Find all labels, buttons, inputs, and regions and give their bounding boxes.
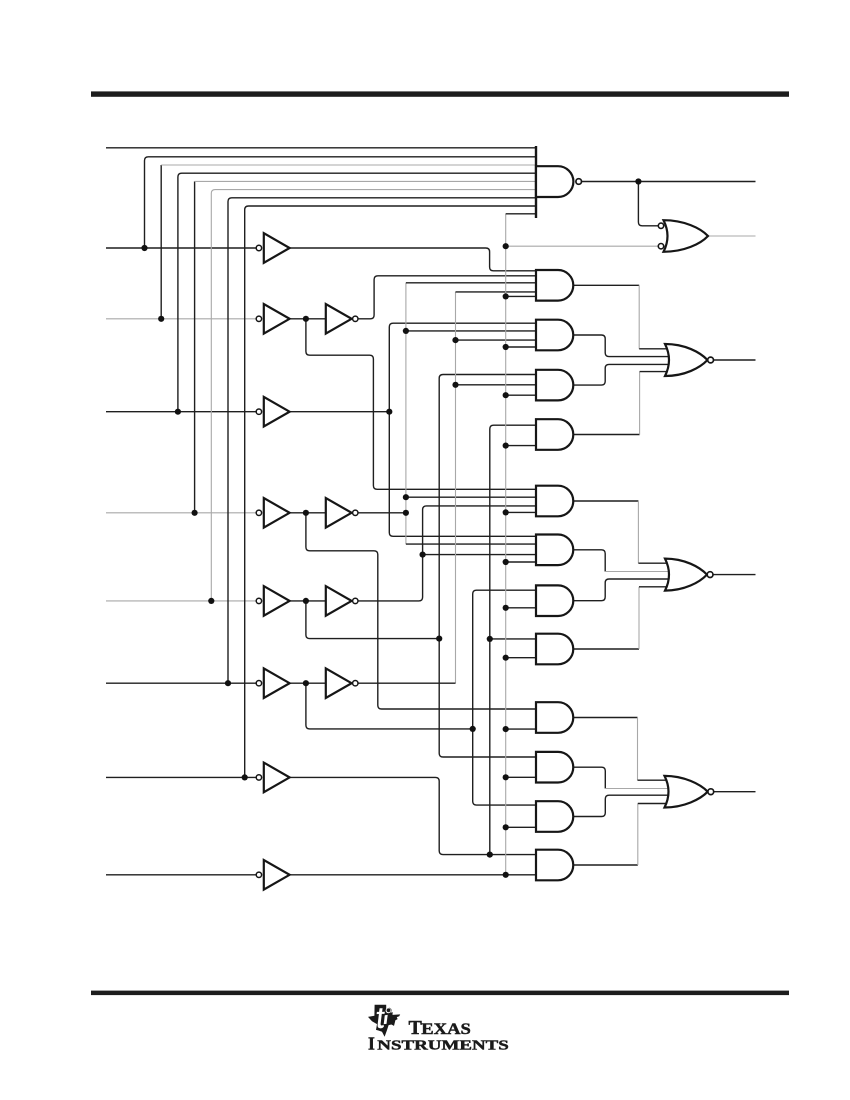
wire GS output [708,235,756,237]
junction buffer4 output [303,510,309,516]
AND gate G3 [536,370,573,401]
wire net EI' to G11 [506,826,536,828]
wire net EI' source to AND G12 [290,874,536,876]
junction net 6' G2 [452,337,458,343]
junction EI' G5 [503,509,509,515]
wire buffer4 to inverter4 [290,512,326,514]
Texas Instruments logo symbol [368,1005,400,1037]
junction buffer2 output [303,316,309,322]
junction net 7 G12 [487,852,493,858]
wire G2 output to NOR A2 [573,335,670,357]
wire net EI' vertical [505,214,507,875]
junction net 3 row4 [386,409,392,415]
top rule [91,91,789,96]
inverter U4b input 4 [326,498,358,528]
wire input 7 row [106,206,536,777]
NOR gate A0 [665,776,714,808]
wire net EI' to G10 [506,776,536,778]
logo wordmark TEXAS [409,1017,471,1039]
wire net 5' to AND G6 [423,554,536,556]
wire net 7 to G8 [490,638,536,640]
wire A1 output [713,574,755,576]
junction EI' source [503,872,509,878]
buffer U8 input EI [256,860,289,890]
AND gate G4 [536,419,573,450]
wire net EI' to G1 [506,295,536,297]
junction buffer6 output [303,680,309,686]
wire input 4 row [106,512,257,514]
junction row7 tap [242,774,248,780]
wire G3 output to NOR A2 [573,364,670,385]
wire net 4 to AND G9 [306,513,536,709]
wire net 4' to G5 [406,496,536,498]
wire input 5 row [106,600,257,602]
AND gate G10 [536,752,573,783]
negative-OR gate GS [658,220,708,252]
AND gate G11 [536,801,573,832]
wire net EI' to G8 [506,657,536,659]
svg-text:EXAS: EXAS [421,1021,471,1038]
wire net 6' to G1 [456,291,537,293]
NOR gate A1 [665,559,713,591]
junction EI' G4 [503,443,509,449]
wire net 2' to AND G1 [358,276,536,319]
wire input 2 row [106,318,257,320]
bottom rule [91,991,789,996]
junction row1 tap [141,245,147,251]
junction row6 tap [225,680,231,686]
junction row2 tap [158,316,164,322]
wire net 4' to G1 [406,282,536,284]
wire net 7 source to AND G12 [290,777,536,854]
AND gate G7 [536,585,573,616]
AND gate G12 [536,850,573,881]
buffer U3 input 3 [256,397,289,427]
AND gate G1 [536,270,573,301]
wire buffer5 to inverter5 [290,600,326,602]
wire net 6' to G3 [456,384,537,386]
wire net 4' to G2 [406,330,536,332]
wire net EI' to G6 [506,561,536,563]
svg-text:NSTRUMENTS: NSTRUMENTS [377,1039,509,1054]
junction EI' G7 [503,605,509,611]
wire net 6' source [358,682,456,684]
wire input 5 row riser [211,190,536,601]
AND gate G2 [536,320,573,351]
junction EI' G6 [503,559,509,565]
buffer U1 input 1 [256,233,289,263]
wire G11 output to NOR A0 [573,795,669,816]
wire G6 output to NOR A1 [573,550,670,572]
wire net EI' to G9 [506,728,536,730]
wire A0 output [714,791,756,793]
wire A2 output [714,359,756,361]
wire G4 output to NOR A2 [573,372,670,435]
AND gate G8 [536,634,573,665]
wire net 2 to AND G5 [306,319,536,490]
logo wordmark INSTRUMENTS [368,1034,509,1054]
buffer U5 input 5 [256,586,289,616]
wire net EI' to G5 [506,511,536,513]
wire net EI' to G7 [506,607,536,609]
wire EO to GS gate [638,182,658,226]
junction net 5' G6 [420,552,426,558]
junction EI' G1 [503,293,509,299]
wire net EI' to G2 [506,346,536,348]
wire G5 output to NOR A1 [573,501,670,563]
buffer U2 input 2 [256,304,289,334]
AND gate G5 [536,486,573,517]
NOR gate A2 [665,344,713,376]
wire input 6 row [106,198,536,683]
junction row5 tap [208,598,214,604]
wire input 3 row [106,173,536,412]
junction net 7 G8 [487,636,493,642]
wire buffer2 to inverter2 [290,318,326,320]
junction net 6 [470,726,476,732]
AND gate G9 [536,702,573,733]
junction EI' G3 [503,392,509,398]
wire net EI' to NAND [506,213,536,215]
inverter U5b input 5 [326,586,358,616]
wire input 0 row [106,147,536,149]
wire net 7 vertical to G4 [490,425,536,854]
wire net EI' to G4 [506,445,536,447]
junction net 4' G2 [403,328,409,334]
wire input 4 row riser [195,181,536,512]
junction net 4' G5 [403,494,409,500]
wire net 5 vertical to G3 and G10 [439,375,536,758]
wire buffer6 to inverter6 [290,682,326,684]
wire net 4' to G6 [406,543,536,545]
junction row3 tap [175,409,181,415]
junction EI' GS [503,243,509,249]
inverter U2b input 2 [326,304,358,334]
wire net 5 horizontal [306,601,439,639]
buffer U7 input 7 [256,763,289,793]
AND gate G6 [536,535,573,566]
NAND gate EO [536,146,582,218]
buffer U4 input 4 [256,498,289,528]
junction net 4' source [403,510,409,516]
wire net 4' source [358,512,406,514]
junction EI' G8 [503,655,509,661]
wire net EI' to GS gate [506,245,659,247]
wire G8 output to NOR A1 [573,587,670,649]
wire G9 output to NOR A0 [573,718,669,781]
wire net 6' to G2 [456,339,537,341]
wire net 6' vertical [455,292,457,683]
junction row4 tap [192,510,198,516]
wire EO output [582,181,756,183]
svg-text:I: I [368,1034,375,1054]
wire G1 output to NOR A2 [573,285,670,349]
junction buffer5 output [303,598,309,604]
wire net 6 vertical to G7 and G11 [473,590,536,805]
wire input 1 row [106,157,536,248]
wire net 6 horizontal [306,683,473,729]
junction EI' G11 [503,824,509,830]
wire net 4' vertical [405,283,407,544]
wire G10 output to NOR A0 [573,767,669,788]
junction EI' G9 [503,726,509,732]
wire net EI' to G3 [506,394,536,396]
wire G12 output to NOR A0 [573,804,669,866]
wire G7 output to NOR A1 [573,579,670,601]
junction EO node [635,178,641,184]
inverter U6b input 6 [326,668,358,698]
wire net 5' to AND G5 [358,506,536,601]
buffer U6 input 6 [256,668,289,698]
junction net 5 [436,636,442,642]
wire net 3 vertical [389,323,536,536]
junction EI' G2 [503,344,509,350]
junction EI' G10 [503,774,509,780]
wire input EI row [106,874,257,876]
wire input 2 row riser [161,165,536,319]
wire buffer3 output [290,411,390,413]
junction net 6' G3 [452,382,458,388]
wire net 1 buffered to AND G1 [290,248,536,271]
